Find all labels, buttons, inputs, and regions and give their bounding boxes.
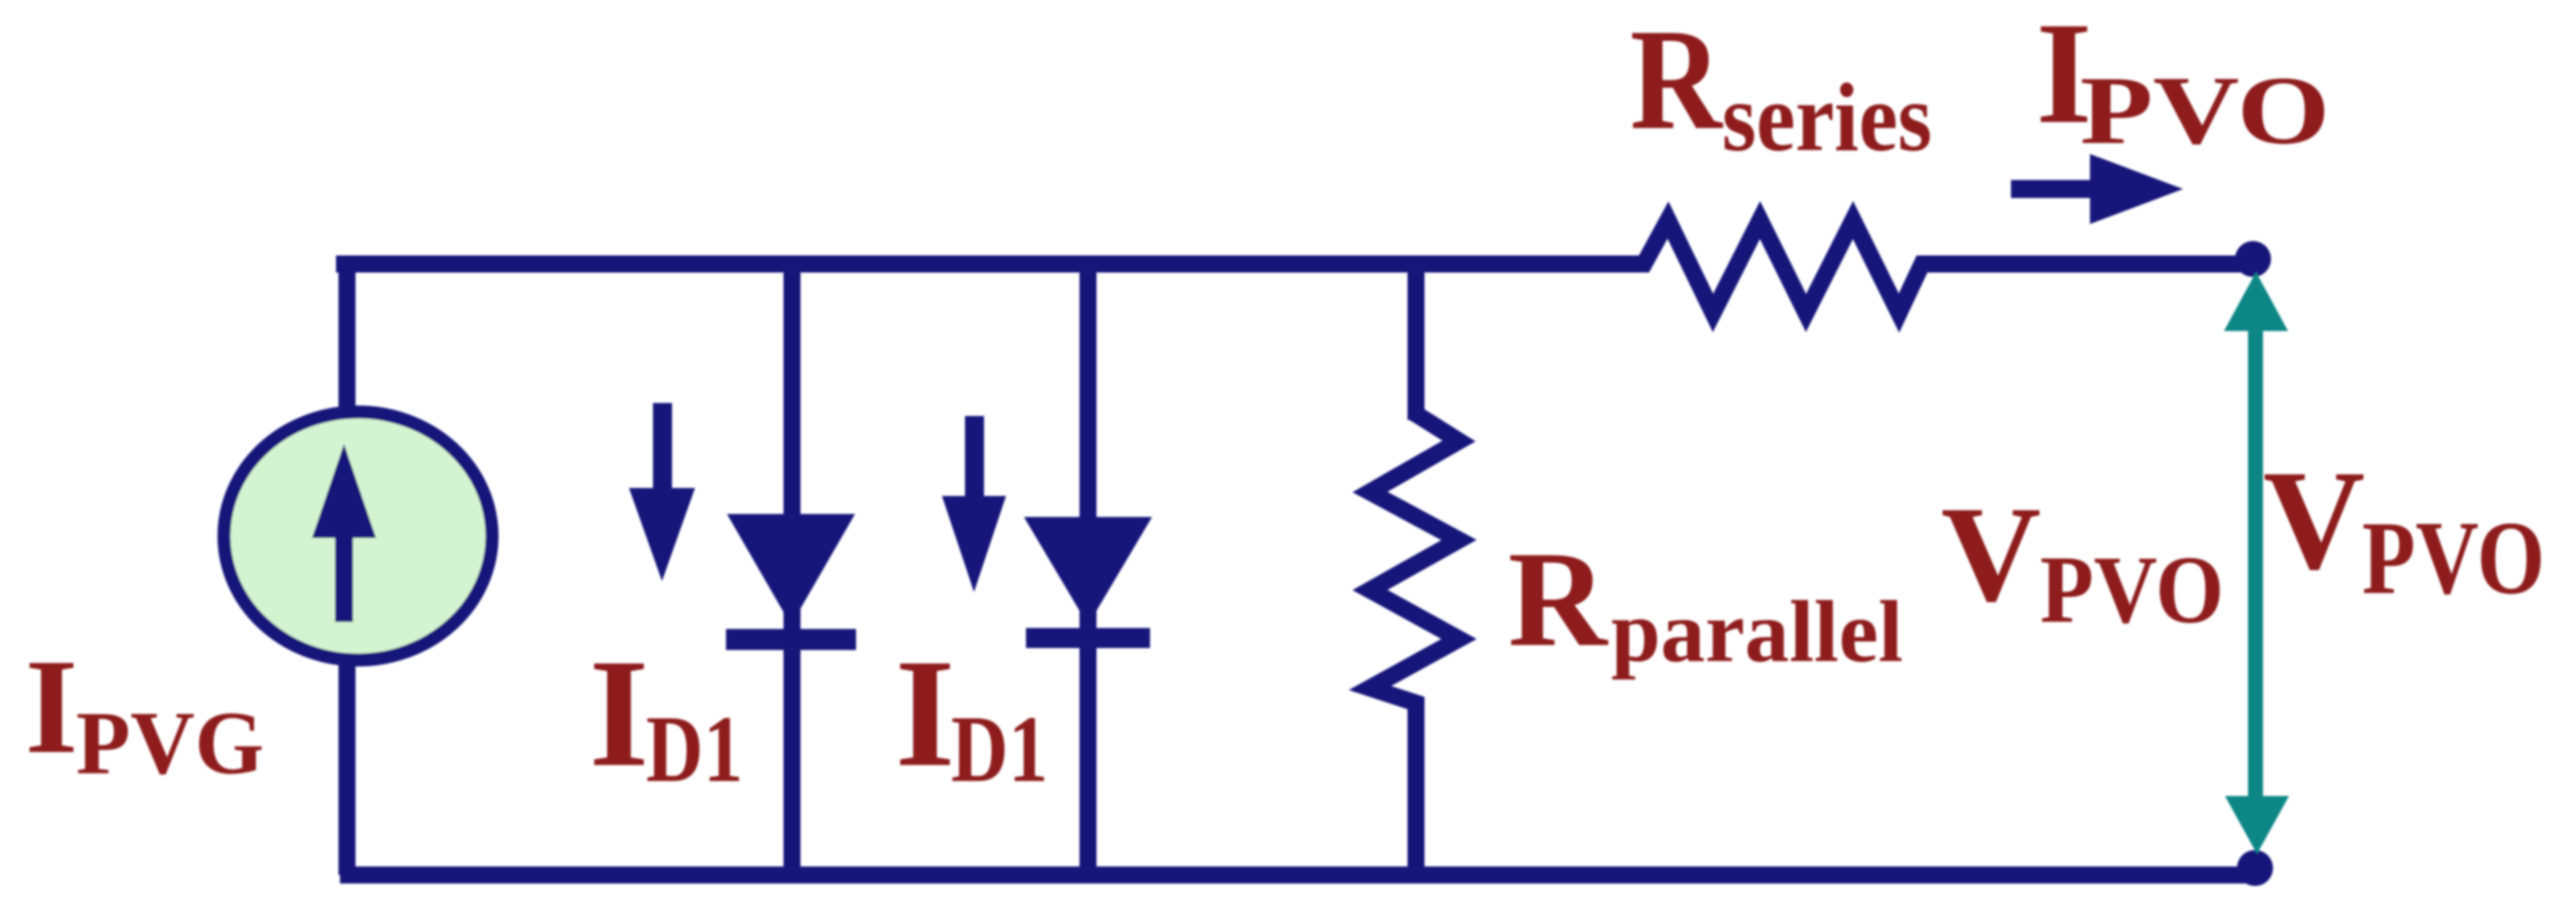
svg-text:series: series	[1722, 64, 1932, 171]
svg-text:I: I	[895, 627, 955, 799]
svg-text:PVO: PVO	[2080, 57, 2330, 164]
svg-text:parallel: parallel	[1611, 584, 1903, 681]
svg-text:PVO: PVO	[2040, 536, 2224, 643]
svg-text:R: R	[1508, 523, 1609, 675]
svg-text:I: I	[25, 632, 78, 782]
svg-text:V: V	[1941, 478, 2041, 630]
svg-text:I: I	[589, 627, 649, 799]
svg-text:V: V	[2263, 441, 2365, 599]
svg-text:PVG: PVG	[76, 694, 264, 793]
svg-text:D1: D1	[646, 696, 743, 802]
svg-text:PVO: PVO	[2362, 499, 2545, 616]
svg-text:R: R	[1630, 0, 1723, 160]
svg-text:D1: D1	[951, 696, 1048, 802]
